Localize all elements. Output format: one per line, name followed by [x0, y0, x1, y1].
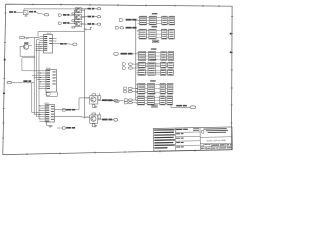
- test point TP2: [57, 127, 75, 129]
- junction dots: [40, 72, 41, 82]
- resistor network RN330: [139, 52, 146, 61]
- wire: [138, 17, 169, 23]
- wire: [85, 98, 102, 101]
- resistor network RN350: [138, 83, 145, 94]
- transistor Q6 label: [24, 42, 28, 43]
- connector pin J4-7: [125, 99, 133, 104]
- wire: [74, 9, 87, 11]
- transistor Q1 with outline: [75, 8, 81, 13]
- power +5V: [83, 27, 92, 31]
- LED array DS331: [148, 52, 155, 61]
- resistor R4c: [93, 104, 95, 108]
- connector pin J3-1: [7, 81, 11, 84]
- node OUT5 label: [102, 119, 112, 121]
- connector pin J4-3: [123, 67, 133, 70]
- wire: [136, 97, 167, 104]
- wire: [137, 71, 168, 74]
- wire: [137, 30, 140, 32]
- LED array DT363: [167, 96, 173, 105]
- wire: [171, 105, 190, 108]
- resistor network RM362: [160, 96, 165, 105]
- resistor R2: [72, 20, 75, 22]
- transistor Q2 with outline: [75, 15, 81, 20]
- wire: [112, 119, 113, 121]
- wire: [136, 85, 167, 93]
- node OUT label: [176, 105, 187, 107]
- connector pin J2-1: [97, 8, 101, 10]
- IC U306 label: [150, 93, 156, 94]
- node PWR_SW label: [9, 11, 16, 13]
- IC U201: [39, 103, 54, 122]
- connector pin J2-4: [73, 43, 77, 46]
- resistor network RM702: [168, 70, 174, 76]
- net flag PWR_LED: [58, 14, 69, 16]
- LED array DS701: [161, 70, 166, 76]
- LED array DS304 tall: [148, 62, 155, 75]
- IC U304 label: [151, 59, 157, 60]
- connector pin J2-2: [97, 16, 101, 18]
- net flag HDDLED: [116, 26, 137, 29]
- svg-text:+5V: +5V: [83, 29, 87, 31]
- wire: [95, 8, 98, 10]
- LED array DS341: [161, 62, 166, 68]
- IC U305 label: [150, 80, 156, 81]
- resistor network RN320: [139, 29, 146, 39]
- IC U302 label: [152, 26, 158, 27]
- wire: [20, 46, 40, 71]
- resistor network RN700: [138, 70, 145, 76]
- wire: [67, 43, 73, 46]
- connector pin J4-2: [123, 63, 133, 66]
- wire: [113, 100, 115, 103]
- resistor R5c: [93, 123, 95, 127]
- resistor R4a: [92, 94, 96, 96]
- wire to row1: [24, 9, 87, 11]
- wire: [132, 91, 137, 93]
- wire: [73, 10, 75, 24]
- connector pin J4-5: [124, 90, 132, 93]
- resistor R4b: [98, 93, 101, 99]
- transistor Q3 with outline: [75, 21, 81, 26]
- wire: [24, 37, 39, 39]
- ground: [94, 105, 97, 107]
- connector pin J4-6: [108, 100, 119, 103]
- wire: [16, 12, 23, 14]
- resistor R5a: [92, 113, 96, 115]
- net flag HDD_LED: [58, 22, 69, 24]
- wire bus: [32, 38, 40, 119]
- IC U301 label: [152, 13, 158, 14]
- IC U303 label: [151, 48, 157, 49]
- wire: [112, 100, 113, 102]
- wire right rail: [135, 21, 137, 100]
- node LED_C label: [60, 43, 67, 45]
- connector pin J2-4: [114, 99, 118, 102]
- wire: [34, 38, 39, 51]
- wire: [74, 16, 87, 19]
- wire: [95, 23, 98, 25]
- transistor Q6: [23, 44, 28, 49]
- wire: [137, 53, 168, 60]
- wire: [133, 53, 140, 55]
- title block: [153, 127, 232, 151]
- wire ground stub: [47, 122, 53, 127]
- wire: [74, 23, 87, 25]
- wire: [133, 63, 139, 65]
- LED array DS321: [149, 29, 156, 39]
- wire ground loop: [47, 92, 58, 96]
- LED array DS311: [149, 16, 156, 25]
- resistor R3: [72, 27, 75, 29]
- node U2 label: [152, 40, 159, 43]
- resistor network RN340: [138, 62, 145, 68]
- ground: [94, 125, 97, 127]
- IC U100: [40, 33, 57, 53]
- node BLK label: [20, 36, 30, 40]
- resistor network RM322: [162, 29, 167, 39]
- transistor Q5 with outline: [90, 115, 98, 123]
- wire: [119, 100, 137, 103]
- transistor Q4 with outline: [90, 96, 98, 104]
- wire: [70, 22, 76, 24]
- node SW_OUT label: [29, 11, 36, 13]
- switch S1: [23, 11, 28, 16]
- resistor network RM332: [161, 52, 166, 61]
- resistor network RM352: [160, 83, 165, 94]
- wire: [12, 82, 35, 84]
- drawing border frame: [2, 3, 233, 155]
- wire: [55, 98, 90, 117]
- resistor network RN360: [137, 96, 144, 105]
- resistor network RN310: [139, 16, 146, 25]
- wire: [95, 16, 98, 18]
- connector pin J4-4: [124, 87, 132, 90]
- wire: [32, 73, 40, 82]
- connector pin J2-5: [114, 118, 118, 121]
- wire: [70, 14, 76, 16]
- wire: [132, 87, 137, 89]
- IC U200: [39, 68, 57, 92]
- connector pin J2-3: [97, 23, 101, 25]
- wire: [137, 19, 140, 21]
- wire: [138, 30, 169, 37]
- wire +5V rail: [38, 9, 85, 119]
- LED array DS351: [148, 83, 155, 94]
- junction dots U201: [39, 105, 40, 119]
- node CABLE label: [23, 80, 31, 82]
- test point TP1: [63, 109, 76, 111]
- LED array DT323: [169, 29, 175, 39]
- resistor network RM312: [162, 16, 167, 25]
- wire: [57, 43, 60, 45]
- resistor R1: [72, 13, 75, 15]
- svg-text:BLK: BLK: [26, 38, 30, 40]
- wire: [36, 13, 44, 15]
- svg-text:B: B: [201, 144, 203, 148]
- LED array DT313: [169, 16, 175, 25]
- junction dots: [36, 46, 41, 51]
- resistor network RM342: [168, 62, 174, 68]
- LED array DT353: [167, 83, 173, 94]
- resistor R5b: [98, 112, 101, 118]
- node LED1 label: [88, 8, 95, 10]
- node OUT4 label: [102, 99, 112, 101]
- LED array DS361: [147, 96, 154, 105]
- capacitor C1: [46, 93, 51, 96]
- wire: [133, 67, 139, 69]
- node LED2 label: [88, 16, 95, 18]
- wire: [137, 63, 168, 66]
- net flag PWRLED: [119, 19, 136, 22]
- ground: [151, 105, 157, 108]
- connector pin J5-1: [190, 106, 196, 109]
- LED array DT333: [168, 52, 174, 61]
- node LED3 label: [88, 23, 95, 25]
- svg-text:MODEL DISPLAY PANEL: MODEL DISPLAY PANEL: [206, 139, 226, 142]
- wire: [85, 117, 102, 120]
- connector pin J4-1: [114, 53, 133, 56]
- connector pin J1-1: [44, 14, 49, 16]
